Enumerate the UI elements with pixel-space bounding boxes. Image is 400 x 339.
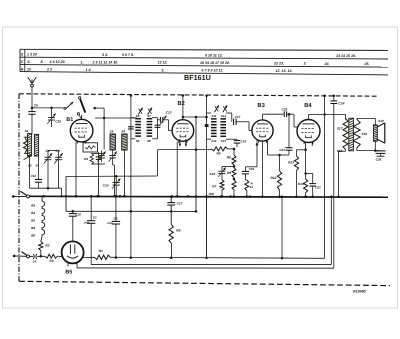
tube B5 <box>62 241 84 263</box>
wire primary bottom to bus <box>345 150 347 152</box>
wire IFT1 feed from HT rail <box>130 95 132 118</box>
svg-text:S2: S2 <box>28 164 32 168</box>
wire B4 heater pin <box>311 142 313 146</box>
svg-text:100n: 100n <box>107 222 113 225</box>
wire B1 cathode to bus <box>75 141 77 196</box>
svg-text:3 4.: 3 4. <box>102 53 108 57</box>
IFT2 tuning arrow right <box>223 105 227 112</box>
wire secondary top to speaker <box>356 117 358 120</box>
svg-text:S4: S4 <box>121 130 125 134</box>
svg-text:S7: S7 <box>147 114 151 118</box>
svg-text:13 12.: 13 12. <box>158 61 168 65</box>
wire B1 anode to IFT1 <box>95 117 137 119</box>
svg-text:R3: R3 <box>49 259 53 263</box>
trimmer osc b <box>98 155 105 157</box>
capacitor C24 <box>333 96 335 101</box>
svg-text:S11: S11 <box>211 114 216 118</box>
svg-text:B3: B3 <box>31 203 35 207</box>
fixed capacitor on IFT2 <box>205 124 209 127</box>
svg-text:B3: B3 <box>257 102 265 109</box>
wire IFT1 secondary return <box>157 150 159 176</box>
capacitor C21 <box>288 113 291 116</box>
IFT1 left wire <box>130 118 132 139</box>
IFT2 tuning arrow left <box>214 105 218 112</box>
mains switch upper <box>12 195 15 198</box>
svg-text:R13: R13 <box>288 160 294 164</box>
svg-text:25.: 25. <box>364 62 370 66</box>
wire C24 down to B+ loop <box>333 104 335 269</box>
coil S3 left <box>34 134 38 156</box>
wire R13 to B4 cathode <box>297 149 306 151</box>
svg-text:L4: L4 <box>33 259 37 263</box>
tube B3 <box>252 120 273 141</box>
svg-text:B5: B5 <box>65 270 72 276</box>
svg-text:S3: S3 <box>110 130 114 134</box>
wire detector return riser <box>195 117 197 211</box>
wire R4 to bus <box>98 152 100 154</box>
wire B5 anode top <box>72 240 74 242</box>
svg-text:S8: S8 <box>147 139 151 143</box>
wire B2 cathode lead <box>176 142 178 197</box>
wire switch to R3 <box>37 255 45 257</box>
heater chain choke <box>41 196 43 201</box>
svg-text:B4: B4 <box>31 226 35 230</box>
wire antenna down <box>31 87 33 111</box>
svg-text:R14: R14 <box>298 182 304 186</box>
capacitor C8 <box>115 196 117 221</box>
svg-text:C24: C24 <box>338 101 344 105</box>
capacitor C17 bus <box>170 197 172 202</box>
svg-text:R8: R8 <box>227 156 231 160</box>
svg-text:B1: B1 <box>66 117 73 123</box>
loudspeaker voice coil <box>373 125 377 141</box>
wire C21 to R12 <box>280 154 290 156</box>
svg-text:R12: R12 <box>271 176 277 180</box>
svg-text:S19: S19 <box>378 119 384 123</box>
svg-text:S12: S12 <box>211 139 217 143</box>
trimmer C13 <box>158 119 160 121</box>
wire coil bottom left <box>29 156 31 188</box>
svg-text:5.: 5. <box>162 68 165 72</box>
wire padder top <box>48 150 59 152</box>
svg-text:R9: R9 <box>227 171 231 175</box>
oscillator coil box S9 <box>83 143 98 152</box>
capacitor C20 <box>72 211 74 213</box>
tube B2 <box>172 120 194 142</box>
wire R1 output line <box>111 257 325 258</box>
resistor R8 <box>228 148 234 150</box>
wire bus riser b <box>330 197 332 265</box>
switch arrow S20 a <box>64 107 66 109</box>
svg-text:(18): (18) <box>209 192 214 196</box>
resistor R12 <box>279 155 281 171</box>
transformer secondary S16 <box>353 119 360 148</box>
svg-text:C12: C12 <box>31 174 37 178</box>
svg-text:R5: R5 <box>176 229 180 233</box>
chassis bus line <box>30 195 388 198</box>
capacitor across R4 <box>96 156 102 158</box>
IFT1 primary coil S5 <box>135 118 141 120</box>
resistor R9 <box>233 165 236 168</box>
tuning arrow left coils <box>24 155 32 159</box>
resistor R2 <box>41 236 42 241</box>
tube B4 <box>297 120 320 143</box>
IFT1 tuning arrow right <box>148 108 152 115</box>
svg-text:C26: C26 <box>376 158 382 162</box>
svg-text:R4: R4 <box>84 157 88 161</box>
chassis dashed border top <box>19 94 378 96</box>
svg-text:R1: R1 <box>99 249 103 253</box>
svg-text:B2: B2 <box>178 100 185 107</box>
svg-text:12. 13. 14.: 12. 13. 14. <box>276 69 293 73</box>
wire B2 screen to HT rail <box>182 95 184 117</box>
svg-text:C19: C19 <box>249 167 255 171</box>
mains switch lower <box>13 255 16 258</box>
loudspeaker cone <box>377 123 385 127</box>
svg-text:S1: S1 <box>25 129 29 133</box>
svg-text:C13: C13 <box>166 111 172 115</box>
capacitor C17 coupling <box>231 113 233 122</box>
svg-text:22 23.: 22 23. <box>273 62 284 66</box>
coil S1 <box>27 134 31 156</box>
IFT2 primary coil <box>211 118 217 120</box>
svg-text:24.: 24. <box>324 62 330 66</box>
svg-text:S14: S14 <box>221 114 227 118</box>
wire S4 lead to bus <box>123 150 125 196</box>
wire IFT2 left down to bus <box>206 139 208 196</box>
wire speaker return <box>374 141 376 150</box>
component table frame <box>20 49 388 50</box>
resistor R13 <box>296 150 298 156</box>
svg-text:100n: 100n <box>83 221 89 224</box>
wire B3 anode top <box>262 114 264 119</box>
capacitor C1 <box>90 196 92 220</box>
svg-text:S13: S13 <box>221 139 227 143</box>
svg-text:3.: 3. <box>304 62 307 66</box>
svg-text:C10: C10 <box>55 120 61 124</box>
bus junction dots <box>43 195 46 198</box>
wire screen feed vertical <box>324 96 326 259</box>
IFT1 secondary coil S7 <box>147 118 153 120</box>
transformer core <box>349 118 354 151</box>
trimmer C10 <box>51 108 53 117</box>
node HT rail b <box>333 94 336 97</box>
svg-text:1.: 1. <box>81 60 84 64</box>
wire B4 anode to transformer <box>309 114 346 116</box>
node antenna junction <box>31 107 34 110</box>
svg-text:1 4.: 1 4. <box>86 68 92 72</box>
capacitor C18 <box>232 138 237 140</box>
svg-text:C9: C9 <box>56 149 60 153</box>
svg-text:5 6 7 8.: 5 6 7 8. <box>122 53 134 57</box>
svg-text:S4: S4 <box>36 164 40 168</box>
wire bus riser to output loop <box>205 257 208 260</box>
svg-text:R: R <box>21 68 24 72</box>
capacitor C26 <box>376 150 386 152</box>
switch wiper b <box>79 97 81 99</box>
resistor R6 <box>212 147 228 151</box>
wire IFT1 down to second bus <box>130 139 132 258</box>
svg-text:BF161U: BF161U <box>184 73 211 82</box>
svg-text:8.: 8. <box>41 60 44 64</box>
svg-text:C18: C18 <box>241 139 247 143</box>
chassis dashed border bottom <box>19 281 390 285</box>
svg-text:R19580: R19580 <box>353 289 366 293</box>
capacitor C23 <box>304 172 307 175</box>
wire antenna to switch <box>32 107 64 109</box>
wire B2 to R6 <box>158 149 212 151</box>
svg-text:C23: C23 <box>315 185 321 189</box>
wire B4 anode top <box>308 115 310 120</box>
node HT rail a <box>323 94 326 97</box>
svg-text:C6: C6 <box>34 104 38 108</box>
resistor R3 <box>45 254 58 258</box>
antenna symbol <box>28 77 32 83</box>
connector L4 <box>30 255 34 257</box>
svg-text:B4: B4 <box>304 103 312 109</box>
svg-text:6.: 6. <box>28 60 31 64</box>
svg-text:R7: R7 <box>212 185 216 189</box>
resistor R5 <box>170 211 172 224</box>
wire heater return line <box>91 264 331 266</box>
svg-text:C17: C17 <box>235 115 241 119</box>
IFT1 tuning arrow left <box>138 108 142 115</box>
svg-text:4 9 10 20.: 4 9 10 20. <box>49 60 66 64</box>
svg-text:9 10 11 12.: 9 10 11 12. <box>205 53 223 57</box>
svg-text:1 3 20: 1 3 20 <box>27 52 37 56</box>
IFT1 right wire <box>157 118 159 139</box>
svg-text:C16: C16 <box>210 172 216 176</box>
resistor R1 <box>83 256 95 258</box>
resistor R11 <box>246 179 247 181</box>
wire to bus a <box>114 165 116 196</box>
svg-text:C8: C8 <box>113 216 117 220</box>
svg-text:2 3: 2 3 <box>46 68 52 72</box>
resistor R7 <box>220 180 224 190</box>
svg-text:C21: C21 <box>279 148 285 152</box>
svg-text:C16: C16 <box>103 184 109 188</box>
resistor R15 <box>24 139 28 152</box>
svg-text:S6: S6 <box>136 139 140 143</box>
svg-text:B2: B2 <box>31 218 35 222</box>
heater pin arrows B2 <box>179 139 181 146</box>
trimmer C16b <box>222 166 234 168</box>
svg-text:R6: R6 <box>217 152 221 156</box>
trimmer C16 oscillator pad <box>115 176 117 182</box>
capacitor across IFT1 secondary <box>155 124 161 126</box>
IFT2 right wire <box>226 112 232 114</box>
trimmer osc a <box>109 155 116 157</box>
terminal circle <box>77 113 79 115</box>
svg-text:2 5 11 12 14 30.: 2 5 11 12 14 30. <box>92 60 119 64</box>
svg-text:16 34 18 17 19 20.: 16 34 18 17 19 20. <box>200 61 230 65</box>
resistor R10 <box>233 178 236 181</box>
wire B plus riser mid <box>281 197 283 258</box>
svg-text:R2: R2 <box>45 244 49 248</box>
wire secondary bottom <box>356 148 358 151</box>
svg-text:11: 11 <box>250 185 253 189</box>
wire B2 anode top <box>182 117 184 120</box>
wire B1 vertical right <box>95 107 104 109</box>
svg-text:S16: S16 <box>361 132 367 136</box>
svg-text:S5: S5 <box>136 114 140 118</box>
tube B1 <box>70 119 93 142</box>
wire B plus riser right <box>206 197 208 258</box>
svg-text:C17: C17 <box>177 201 183 205</box>
capacitor across IFT1 primary <box>128 126 134 128</box>
svg-text:C1: C1 <box>93 216 97 220</box>
IFT2 secondary coil <box>220 118 226 120</box>
transformer primary S17 <box>343 118 348 149</box>
wire S3 lead <box>112 150 114 155</box>
supply bus line <box>66 210 196 212</box>
wire B3 anode to C22 <box>263 113 284 115</box>
svg-text:C22: C22 <box>281 107 287 111</box>
capacitor C19 <box>256 141 258 167</box>
svg-text:C: C <box>21 60 24 64</box>
resistor R14 <box>305 143 307 179</box>
wire IFT2 feed from HT rail <box>206 96 208 113</box>
chassis dashed border left <box>18 94 20 281</box>
tube B5 pins <box>67 263 69 267</box>
svg-text:C20: C20 <box>75 212 81 216</box>
svg-text:B5: B5 <box>31 233 35 237</box>
svg-text:B1: B1 <box>31 211 35 215</box>
wire AVC left vertical <box>65 177 67 212</box>
wire cathode return line <box>77 267 334 269</box>
svg-text:S17: S17 <box>337 126 343 130</box>
svg-text:13 14 15 16.: 13 14 15 16. <box>336 54 356 58</box>
IFT2 left wire <box>206 113 208 139</box>
wire B3 cathode to bus <box>262 142 264 197</box>
